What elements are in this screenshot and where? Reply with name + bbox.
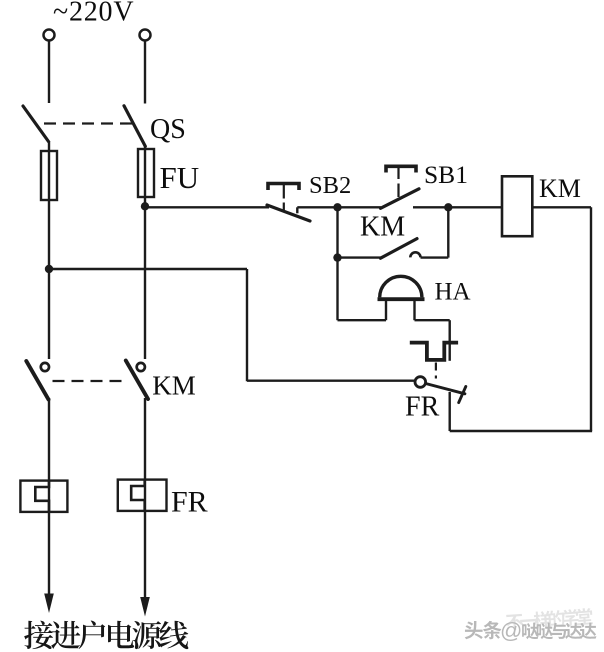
svg-text:HA: HA <box>435 279 471 306</box>
svg-text:SB1: SB1 <box>424 160 468 189</box>
svg-text:KM: KM <box>152 371 196 401</box>
svg-text:KM: KM <box>539 174 581 203</box>
svg-text:QS: QS <box>150 114 186 145</box>
svg-text:~220V: ~220V <box>53 0 134 28</box>
svg-text:@: @ <box>500 618 522 643</box>
svg-text:SB2: SB2 <box>309 172 351 199</box>
svg-text:FR: FR <box>405 391 440 422</box>
svg-text:FR: FR <box>171 486 208 519</box>
svg-text:KM: KM <box>360 212 405 243</box>
svg-text:FU: FU <box>160 160 200 195</box>
